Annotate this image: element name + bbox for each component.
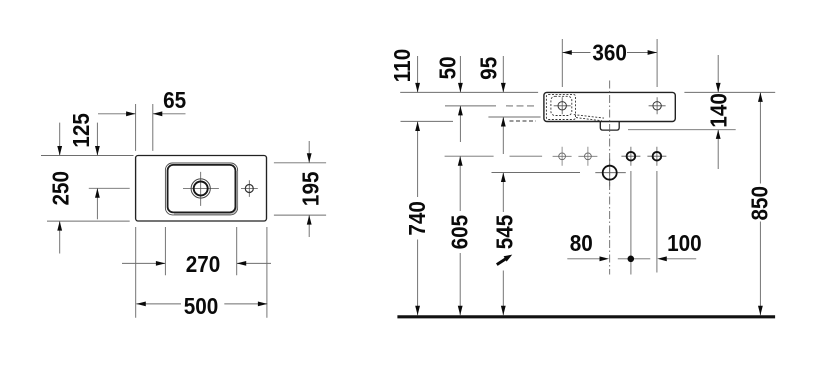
dim 125 arrowheads <box>95 146 100 198</box>
middle hole 4 crosshair <box>647 147 666 166</box>
drain tailpiece <box>600 122 619 131</box>
svg-text:80: 80 <box>570 230 593 256</box>
dim 250 arrowheads <box>57 146 62 231</box>
basin outline (front view) <box>544 92 675 121</box>
svg-text:125: 125 <box>68 113 94 148</box>
dim 80/100 lines <box>567 258 696 260</box>
dim 110 upper arrowhead <box>415 83 420 93</box>
svg-text:65: 65 <box>163 87 186 113</box>
dim 850 arrowheads <box>758 92 763 315</box>
dim 360 extension lines <box>562 39 657 87</box>
ref line: 95 lower reference <box>488 116 540 118</box>
dim 250 arrow lines <box>59 123 61 254</box>
ref line: tap centreline extended left (125 dim) <box>89 187 130 189</box>
fixing hole right circle <box>653 102 661 110</box>
dim 360 arrowheads <box>562 50 657 55</box>
floor line <box>397 315 775 318</box>
dim 850 line <box>759 92 761 315</box>
dim 110 upper arrow line <box>417 56 419 92</box>
bowl rim outer edge <box>165 163 237 215</box>
svg-text:500: 500 <box>184 293 219 319</box>
dim 65 lines <box>98 113 186 115</box>
ext line below hole 3 <box>630 171 632 275</box>
ref line: basin bottom far-left stub <box>401 120 454 122</box>
fixing hole left circle <box>558 102 566 110</box>
hidden bowl bottom slope lines (dashed) <box>574 115 604 121</box>
ref line: basin bottom dashed extension <box>510 120 537 122</box>
centreline (dash-dot) <box>609 81 611 275</box>
dim 140 arrowheads <box>716 83 721 139</box>
tap hole crosshair <box>241 180 258 197</box>
svg-text:605: 605 <box>446 215 472 250</box>
middle hole 4 circle <box>653 152 662 161</box>
svg-text:270: 270 <box>186 251 221 277</box>
middle hole 3 circle <box>627 152 636 161</box>
drain hole outer circle <box>191 179 210 198</box>
dim 65 extension lines <box>136 104 153 151</box>
dim 740 line (shared with 110 lower arrow) <box>417 122 419 316</box>
dim 545 ref line <box>492 172 581 174</box>
dim 80/100 boundary dot <box>628 255 635 262</box>
dim 605 arrowheads <box>458 156 463 315</box>
drain circle crosshair <box>595 159 626 187</box>
dim 740 arrowheads <box>415 122 420 316</box>
bowl rim shadow <box>174 171 237 214</box>
dim 50 arrowheads <box>458 83 463 116</box>
dim 140 lower ref line <box>628 129 736 131</box>
dim 500 extension lines <box>136 227 267 318</box>
dim 195 extension lines <box>274 163 326 215</box>
dim 545 arrowheads <box>501 173 506 316</box>
ext line below hole 4 <box>656 171 658 273</box>
hidden bowl outer contour (dashed) <box>546 94 575 119</box>
dim 500 arrowheads <box>136 302 267 307</box>
ref line: fixing holes centreline extended left (dashed) <box>445 105 496 107</box>
dim 360 lines <box>562 52 657 54</box>
dim 140 arrow lines <box>717 55 719 169</box>
basin outline (top view) <box>136 156 267 222</box>
dim 545 line <box>502 173 504 316</box>
drain hole crosshair <box>183 172 219 206</box>
fixing hole right crosshair <box>649 97 666 114</box>
dim 125 arrow lines <box>96 123 98 220</box>
svg-text:140: 140 <box>706 93 732 128</box>
middle hole 1 circle <box>559 153 566 160</box>
fixing hole left crosshair <box>554 97 571 114</box>
dim 50 arrow lines <box>459 56 461 142</box>
middle hole 3 crosshair <box>621 147 640 166</box>
dim 500 lines <box>136 303 267 305</box>
svg-text:100: 100 <box>667 230 702 256</box>
middle hole 1 crosshair <box>553 147 572 166</box>
middle hole 2 crosshair <box>578 147 597 166</box>
svg-text:95: 95 <box>475 57 501 80</box>
svg-text:850: 850 <box>746 186 772 221</box>
ref line: basin bottom edge extended left <box>47 220 130 222</box>
bowl rim inner edge <box>168 165 236 213</box>
hidden bowl inner contour (dashed) <box>551 96 572 115</box>
svg-text:50: 50 <box>434 56 460 79</box>
dim 80/100 arrowheads <box>600 256 667 261</box>
dim 270 lines <box>122 262 271 264</box>
drain circle <box>603 166 617 180</box>
middle hole 2 circle <box>585 153 592 160</box>
dim 605 line <box>459 156 461 315</box>
dim 140 upper ref line (basin top extended right) <box>684 91 775 93</box>
svg-text:740: 740 <box>404 201 430 236</box>
drain hole inner circle <box>194 182 208 196</box>
dim 95 arrowheads <box>501 83 506 127</box>
diagonal pointer arrow beside 545 <box>497 259 506 265</box>
dim 195 arrow lines <box>308 141 310 237</box>
ref line: basin top edge extended left <box>41 155 134 157</box>
svg-text:250: 250 <box>47 171 73 206</box>
dim 65 arrowheads <box>126 111 162 116</box>
svg-text:545: 545 <box>492 215 518 250</box>
dim 95 arrow lines <box>502 56 504 154</box>
dim 270 extension lines <box>165 227 236 275</box>
svg-text:360: 360 <box>592 40 627 66</box>
dim 195 arrowheads <box>307 153 312 224</box>
svg-text:195: 195 <box>298 172 324 207</box>
middle fixing row ref line <box>445 155 542 157</box>
ref line: basin top edge extended left <box>400 91 538 93</box>
tap hole circle <box>245 185 253 193</box>
dim 270 arrowheads <box>156 261 246 266</box>
svg-text:110: 110 <box>389 49 415 82</box>
